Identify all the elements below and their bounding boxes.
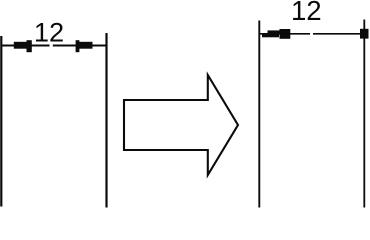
left drawing: right arrowhead tick bar bbox=[78, 42, 93, 49]
left drawing: extension line right bbox=[105, 33, 107, 208]
left drawing: extension line left bbox=[0, 36, 2, 207]
left drawing: left arrowhead tick bar bbox=[14, 42, 30, 49]
left drawing: dimension line right segment bbox=[53, 45, 106, 47]
left drawing: left arrowhead tall column bbox=[27, 40, 32, 52]
right drawing: dimension line right segment bbox=[313, 33, 364, 35]
right drawing: right arrowhead block bbox=[360, 29, 369, 39]
right drawing: left arrowhead oblique slash upper step bbox=[268, 30, 283, 33]
right drawing: extension line right bbox=[363, 20, 365, 208]
right drawing: left arrowhead oblique slash lower step bbox=[262, 34, 279, 37]
right drawing: extension line left bbox=[258, 21, 260, 208]
left drawing: dimension line left segment bbox=[1, 45, 50, 47]
big block arrow pointing right bbox=[124, 75, 238, 175]
right drawing: left arrowhead block bbox=[280, 29, 291, 39]
svg-text:12: 12 bbox=[291, 0, 322, 26]
svg-text:12: 12 bbox=[34, 17, 64, 48]
right drawing: dimension line left segment bbox=[259, 33, 310, 35]
left drawing: right arrowhead tall column bbox=[76, 40, 80, 52]
